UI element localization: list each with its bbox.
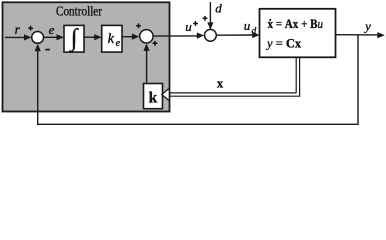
svg-text:u: u	[244, 18, 251, 33]
svg-text:ẋ = Ax + Bu: ẋ = Ax + Bu	[268, 17, 324, 31]
wire integrator to ke	[84, 36, 96, 38]
controller box (gray)	[3, 2, 170, 111]
vector x double line horizontal	[169, 92, 296, 94]
svg-text:∫: ∫	[69, 24, 79, 52]
svg-text:e: e	[49, 22, 55, 37]
arrowhead y output	[377, 32, 385, 38]
svg-text:Controller: Controller	[56, 4, 102, 19]
arrowhead d into summer 3	[207, 22, 213, 29]
svg-text:x: x	[217, 77, 224, 91]
summing junction S3	[205, 29, 217, 41]
open arrowhead x into k	[162, 88, 170, 100]
wire d input	[209, 2, 211, 24]
integrator block	[64, 25, 84, 52]
svg-text:r: r	[15, 22, 21, 37]
minus sign at summer 1	[45, 49, 50, 51]
svg-text:e: e	[116, 38, 121, 49]
wire u to summer 3	[153, 35, 198, 37]
arrowhead r into summer 1	[24, 34, 31, 40]
wire y feedback up into summer 1	[37, 49, 39, 125]
svg-text:y = Cx: y = Cx	[265, 37, 302, 51]
arrowhead into plant	[252, 32, 260, 38]
vector x double line vertical from plant	[295, 58, 297, 94]
wire k to summer 2	[146, 48, 148, 84]
arrowhead into summer 2	[132, 34, 139, 40]
wire y feedback bottom	[37, 123, 359, 125]
summing junction S1	[32, 32, 44, 44]
summing junction S2	[140, 30, 153, 43]
arrowhead into integrator	[57, 34, 65, 40]
wire plant output y	[336, 34, 380, 36]
plus sign u input	[193, 21, 198, 26]
plus sign at summer 2 bottom-right	[153, 41, 158, 46]
wire ud to plant	[216, 34, 253, 36]
svg-text:y: y	[363, 19, 371, 34]
wire ke to summer 2	[122, 36, 134, 38]
svg-text:k: k	[108, 31, 115, 47]
arrowhead u into summer 3	[197, 33, 204, 39]
gain block ke	[102, 25, 122, 52]
svg-text:u: u	[185, 19, 192, 34]
gain block k	[144, 84, 163, 109]
plus sign d input	[203, 16, 208, 21]
arrowhead feedback into summer 1	[35, 44, 41, 52]
arrowhead k into summer 2	[143, 43, 149, 51]
plus sign at summer 1	[28, 26, 33, 31]
wire e to integrator	[44, 36, 58, 38]
wire r input	[5, 36, 26, 38]
svg-text:d: d	[215, 1, 222, 16]
svg-text:k: k	[149, 89, 158, 106]
wire y feedback down	[357, 35, 359, 125]
plant block	[260, 9, 336, 58]
plus sign at summer 2 top-left	[136, 23, 141, 28]
arrowhead into ke	[94, 34, 102, 40]
